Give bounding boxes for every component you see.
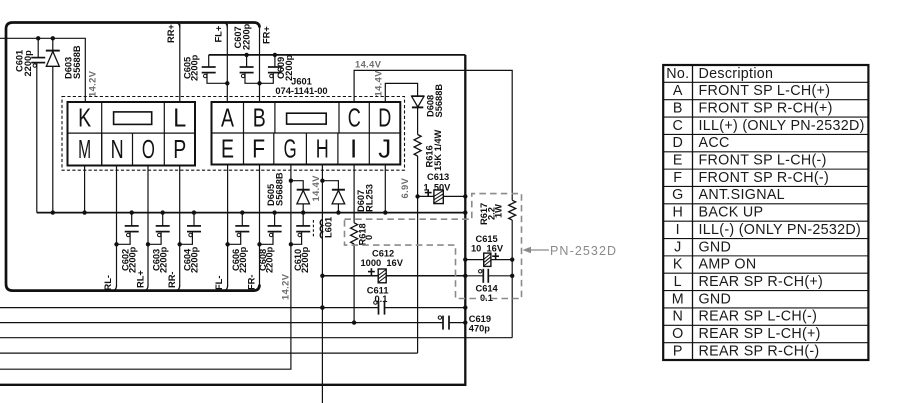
svg-text:RL253: RL253	[365, 184, 375, 212]
svg-text:GND: GND	[699, 291, 732, 307]
svg-text:M: M	[672, 291, 684, 307]
diode D603	[52, 38, 54, 50]
node junction C609 top	[273, 53, 277, 57]
svg-text:F: F	[673, 170, 682, 186]
svg-text:S5688B: S5688B	[72, 45, 82, 79]
svg-text:REAR SP L-CH(-): REAR SP L-CH(-)	[699, 309, 818, 325]
wire pin J to ground	[384, 165, 386, 213]
svg-text:E: E	[221, 134, 234, 164]
resistor R617	[509, 200, 516, 220]
wire ILL- output line	[0, 322, 443, 324]
table row lines	[663, 81, 868, 83]
node junction C613 / ground bus	[463, 194, 467, 198]
connector right block row divider	[212, 132, 401, 134]
svg-text:I: I	[676, 222, 680, 238]
node junction C615 / ILL+ riser	[510, 257, 514, 261]
wire pin H backup	[321, 165, 323, 403]
wire ACC output line	[0, 352, 418, 354]
svg-text:2200p: 2200p	[190, 246, 200, 273]
svg-text:A: A	[673, 83, 683, 99]
capacitor C614	[465, 275, 483, 277]
svg-text:H: H	[316, 134, 329, 164]
svg-text:E: E	[673, 153, 683, 169]
svg-text:ACC: ACC	[699, 135, 730, 151]
svg-text:1W: 1W	[494, 204, 504, 218]
node junction pin G / D605	[289, 179, 293, 183]
capacitor C606	[241, 213, 243, 226]
svg-text:No.: No.	[666, 66, 689, 82]
svg-text:074-1141-00: 074-1141-00	[275, 86, 327, 96]
svg-text:ANT.SIGNAL: ANT.SIGNAL	[699, 187, 785, 203]
svg-text:C613: C613	[427, 172, 449, 182]
svg-text:S5688B: S5688B	[275, 172, 285, 206]
svg-text:A: A	[221, 102, 234, 132]
node ground bus junctions	[51, 210, 55, 214]
node junction C610 return	[289, 242, 293, 246]
svg-text:FRONT SP R-CH(+): FRONT SP R-CH(+)	[699, 100, 833, 116]
svg-text:6.9V: 6.9V	[400, 177, 410, 198]
svg-text:2200p: 2200p	[241, 23, 251, 50]
connector right block outline	[212, 102, 401, 165]
connector left key slot	[114, 112, 152, 125]
wire pin C to R617 (ILL+)	[354, 70, 512, 200]
svg-text:2200p: 2200p	[23, 50, 33, 77]
capacitor C609	[274, 55, 276, 67]
wire R616 to ACC output	[417, 156, 419, 353]
wire fillet RR- at bottom bus	[175, 286, 180, 291]
wire pin E (FL-)	[227, 166, 229, 287]
svg-text:2200p: 2200p	[300, 246, 310, 273]
svg-text:ILL(+) (ONLY PN-2532D): ILL(+) (ONLY PN-2532D)	[699, 118, 865, 134]
svg-text:14.2V: 14.2V	[88, 70, 98, 97]
svg-text:S5688B: S5688B	[434, 84, 444, 118]
wire pin I to R618	[353, 165, 355, 223]
svg-text:14.4V: 14.4V	[355, 60, 382, 70]
node junction D603 top	[51, 36, 55, 40]
svg-text:ILL(-) (ONLY PN-2532D): ILL(-) (ONLY PN-2532D)	[699, 222, 862, 238]
node junction C602 return	[114, 242, 118, 246]
svg-text:14.4V: 14.4V	[311, 175, 321, 202]
svg-text:I: I	[350, 134, 357, 164]
capacitor C603	[162, 213, 164, 226]
wire BACK UP output line	[0, 307, 379, 309]
svg-text:FR-: FR-	[247, 275, 257, 291]
svg-text:J: J	[378, 134, 391, 164]
svg-text:FR+: FR+	[262, 26, 272, 44]
svg-text:C: C	[672, 118, 683, 134]
node junction ACC / C613	[415, 194, 419, 198]
svg-text:J: J	[674, 239, 681, 255]
connector left block row divider	[68, 132, 196, 134]
svg-text:D: D	[672, 135, 683, 151]
wire pin M to ground	[84, 166, 86, 213]
svg-text:P: P	[673, 343, 683, 359]
wire pin N (RL-)	[116, 166, 118, 287]
diode D608	[411, 95, 424, 97]
svg-text:2200p: 2200p	[158, 246, 168, 273]
node junction C619 / ground bus	[463, 320, 467, 324]
node junction C606 return	[225, 242, 229, 246]
wire fillet RL+ at bottom bus	[143, 286, 148, 291]
capacitor C608	[274, 213, 276, 226]
connector J601 dashed outline	[62, 97, 405, 171]
svg-text:B: B	[673, 100, 683, 116]
svg-text:REAR SP L-CH(+): REAR SP L-CH(+)	[699, 326, 821, 342]
svg-text:K: K	[78, 102, 91, 132]
svg-text:470p: 470p	[469, 324, 491, 334]
svg-text:R618: R618	[358, 223, 368, 245]
svg-text:D: D	[378, 102, 391, 132]
svg-text:Description: Description	[699, 66, 774, 82]
capacitor C605	[208, 55, 210, 67]
svg-text:F: F	[252, 134, 265, 164]
PN-2532D pointer arrow	[529, 249, 549, 251]
svg-text:B: B	[253, 102, 266, 132]
svg-text:0: 0	[364, 235, 374, 240]
wire ground return top line	[209, 54, 466, 56]
svg-text:J601: J601	[291, 77, 312, 87]
svg-text:BACK UP: BACK UP	[699, 205, 764, 221]
svg-text:L: L	[173, 102, 186, 132]
capacitor C604	[193, 213, 195, 226]
PN-2532D option dashed outline	[345, 194, 522, 299]
wire fillet FL- at bottom bus	[223, 286, 228, 291]
svg-text:FL-: FL-	[214, 276, 224, 290]
wire FR+ to pin B	[259, 27, 261, 102]
table outline	[663, 65, 868, 360]
wire FL+ to pin A	[226, 24, 228, 102]
svg-text:2200p: 2200p	[127, 246, 137, 273]
svg-text:FRONT SP L-CH(-): FRONT SP L-CH(-)	[699, 153, 827, 169]
svg-text:FL+: FL+	[214, 25, 224, 42]
node junction C607 top	[244, 53, 248, 57]
svg-text:H: H	[672, 205, 683, 221]
resistor R618	[351, 223, 358, 244]
capacitor C601	[37, 38, 39, 57]
node junction pin H / D607	[320, 179, 324, 183]
svg-text:G: G	[672, 187, 683, 203]
node junction C603 return	[146, 242, 150, 246]
svg-text:L601: L601	[324, 217, 334, 238]
capacitor C619	[438, 316, 441, 319]
capacitor C615	[465, 259, 483, 261]
svg-text:C: C	[348, 102, 361, 132]
node junction backup / pin H	[320, 305, 324, 309]
svg-text:RL-: RL-	[103, 275, 113, 291]
svg-text:15K 1/4W: 15K 1/4W	[433, 129, 443, 171]
svg-text:P: P	[173, 134, 186, 164]
connector right key slot	[287, 113, 327, 124]
capacitor C607	[246, 55, 248, 67]
wire fillet RL- at bottom bus	[112, 286, 117, 291]
svg-text:G: G	[284, 134, 297, 164]
svg-text:0.1: 0.1	[375, 294, 388, 304]
svg-text:C619: C619	[469, 314, 491, 324]
capacitor C612	[368, 271, 375, 273]
svg-text:O: O	[672, 326, 683, 342]
connector right block top cell dividers	[243, 102, 245, 133]
svg-text:N: N	[111, 134, 124, 164]
inductor L601	[320, 220, 322, 239]
wire pin P (RR-)	[179, 166, 181, 287]
wire R617 to ILL+ output line	[511, 220, 513, 338]
wire pin O (RL+)	[147, 166, 149, 287]
node junction C601 top	[36, 36, 40, 40]
node junction ILL- / R618	[352, 320, 356, 324]
resistor R616	[414, 135, 421, 157]
node junction C604 return	[178, 242, 182, 246]
svg-text:2200p: 2200p	[265, 246, 275, 273]
svg-text:REAR SP R-CH(+): REAR SP R-CH(+)	[699, 274, 824, 290]
wire pin G (14.2V)	[0, 165, 291, 370]
wire pin F (FR-)	[259, 166, 261, 287]
svg-text:14.2V: 14.2V	[281, 273, 291, 300]
svg-text:PN-2532D: PN-2532D	[550, 244, 617, 258]
wire fillet RR+ at top bus	[175, 23, 180, 28]
svg-text:FRONT SP R-CH(-): FRONT SP R-CH(-)	[699, 170, 830, 186]
connector left block outline	[68, 102, 196, 166]
diode D605	[291, 181, 303, 190]
connector left block cell dividers	[101, 102, 103, 166]
diode D607	[322, 181, 338, 190]
svg-text:REAR SP R-CH(-): REAR SP R-CH(-)	[699, 343, 820, 359]
svg-text:FRONT SP L-CH(+): FRONT SP L-CH(+)	[699, 83, 831, 99]
wire RR+ to pin L	[179, 24, 181, 102]
svg-text:2200p: 2200p	[189, 54, 199, 81]
capacitor C610	[302, 213, 304, 226]
wire ground bus horizontal	[37, 212, 466, 214]
connector right block bottom cell dividers	[243, 133, 245, 165]
node junction C614 / ILL+ riser	[510, 274, 514, 278]
node junction C612 / ground bus	[463, 274, 467, 278]
wire backup to C612	[322, 275, 378, 277]
svg-text:N: N	[672, 309, 683, 325]
capacitor C613	[418, 195, 434, 197]
svg-text:10 16V: 10 16V	[471, 243, 504, 253]
svg-text:O: O	[142, 134, 155, 164]
capacitor C602	[131, 213, 133, 226]
node junction pin B wire / C607 C609 return	[257, 81, 261, 85]
svg-text:RR+: RR+	[166, 24, 176, 43]
svg-text:1 50V: 1 50V	[424, 183, 452, 193]
node junction pin H / backup line	[320, 305, 324, 309]
svg-text:M: M	[78, 134, 91, 164]
svg-text:L: L	[674, 274, 682, 290]
svg-text:K: K	[673, 257, 683, 273]
table column divider	[692, 65, 694, 360]
node junction C611 / ground bus	[463, 305, 467, 309]
svg-text:1000 16V: 1000 16V	[361, 258, 404, 268]
wire pin D riser	[385, 83, 417, 102]
node junction C608 return	[257, 242, 261, 246]
svg-text:14.4V: 14.4V	[374, 70, 384, 97]
wire fillet FL+ at top bus	[222, 23, 227, 28]
wire ILL+ output line	[0, 337, 512, 339]
svg-text:RR-: RR-	[167, 271, 177, 288]
wire module boundary bus (thick rounded outline)	[6, 23, 260, 291]
node junction pin A wire / C605 return	[225, 81, 229, 85]
capacitor C611	[374, 301, 377, 304]
svg-text:AMP ON: AMP ON	[699, 257, 757, 273]
svg-text:GND: GND	[699, 239, 732, 255]
wire main ground bus (thick)	[0, 55, 465, 385]
node junction pin H wire / C612 line	[320, 274, 324, 278]
wire 14.2V feed line to pin K	[0, 38, 85, 102]
svg-text:2200p: 2200p	[238, 246, 248, 273]
node junction ground bus / C615	[463, 257, 467, 261]
